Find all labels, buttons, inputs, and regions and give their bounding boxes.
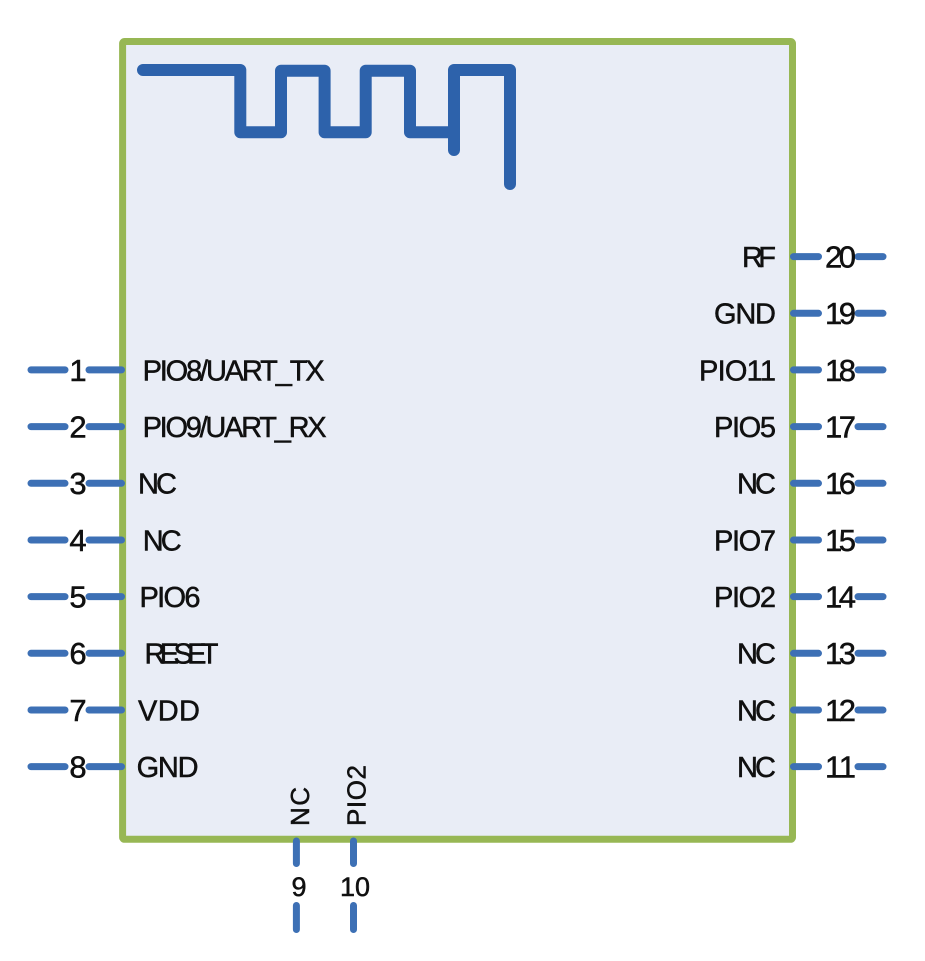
svg-text:NC: NC [737, 639, 776, 671]
svg-text:PIO7: PIO7 [714, 525, 776, 557]
svg-text:PIO2: PIO2 [714, 582, 776, 614]
svg-text:2: 2 [69, 410, 86, 445]
svg-text:RESET: RESET [145, 639, 219, 671]
svg-text:9: 9 [291, 872, 306, 902]
svg-text:17: 17 [825, 410, 856, 445]
svg-text:GND: GND [137, 752, 199, 784]
svg-text:NC: NC [138, 469, 177, 501]
svg-text:14: 14 [825, 580, 856, 615]
svg-text:10: 10 [340, 872, 370, 902]
svg-text:8: 8 [69, 750, 86, 785]
svg-text:12: 12 [825, 693, 856, 728]
svg-text:RF: RF [742, 242, 776, 274]
svg-text:15: 15 [825, 523, 856, 558]
svg-text:NC: NC [737, 695, 776, 727]
svg-text:16: 16 [825, 466, 856, 501]
svg-text:PIO11: PIO11 [699, 355, 776, 387]
svg-text:NC: NC [737, 469, 776, 501]
svg-text:4: 4 [69, 523, 86, 558]
svg-text:13: 13 [825, 636, 856, 671]
svg-text:18: 18 [825, 353, 856, 388]
svg-text:6: 6 [69, 636, 86, 671]
svg-text:19: 19 [825, 296, 856, 331]
svg-text:PIO2: PIO2 [342, 765, 372, 826]
svg-text:7: 7 [69, 693, 86, 728]
svg-text:11: 11 [825, 750, 856, 785]
svg-text:PIO6: PIO6 [140, 582, 201, 614]
svg-text:5: 5 [69, 580, 86, 615]
svg-text:PIO8/UART_TX: PIO8/UART_TX [143, 355, 325, 387]
svg-text:20: 20 [825, 240, 856, 275]
svg-text:PIO9/UART_RX: PIO9/UART_RX [143, 412, 327, 444]
svg-text:PIO5: PIO5 [714, 412, 776, 444]
svg-text:VDD: VDD [138, 695, 200, 727]
svg-text:NC: NC [737, 752, 776, 784]
svg-text:NC: NC [143, 525, 182, 557]
svg-text:3: 3 [69, 466, 86, 501]
svg-text:1: 1 [69, 353, 86, 388]
svg-text:NC: NC [285, 787, 315, 826]
svg-text:GND: GND [714, 299, 776, 331]
